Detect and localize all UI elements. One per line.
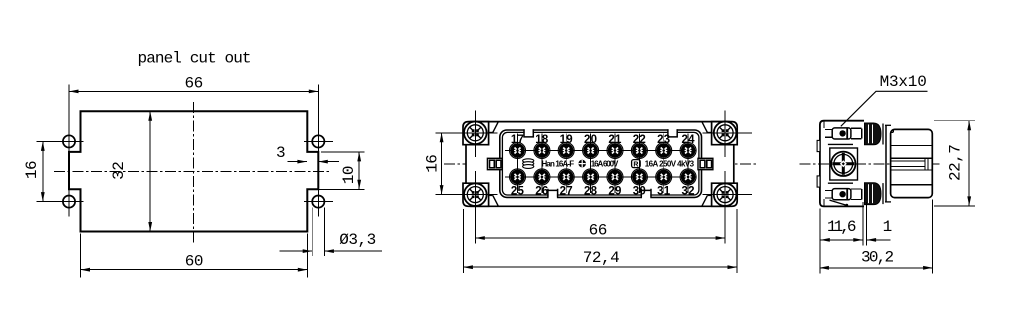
svg-text:25: 25 bbox=[511, 185, 525, 197]
svg-text:Ø3,3: Ø3,3 bbox=[339, 231, 375, 249]
contact 20 bbox=[583, 134, 599, 193]
right body rect bbox=[891, 129, 933, 197]
dimension 32 vertical bbox=[149, 111, 151, 231]
contact 17 bbox=[510, 134, 526, 193]
dimension 60 bottom bbox=[80, 234, 82, 278]
coding notch bottom B bbox=[642, 193, 650, 199]
svg-text:19: 19 bbox=[560, 134, 573, 146]
flange outline bbox=[820, 121, 864, 207]
dimension diameter 3,3 bbox=[311, 208, 313, 257]
corner screw blocks bbox=[463, 122, 489, 145]
screw top-left bbox=[464, 122, 487, 145]
svg-text:16: 16 bbox=[424, 155, 442, 173]
svg-text:30: 30 bbox=[633, 185, 646, 197]
contact 25 bbox=[510, 134, 526, 193]
contact 30 bbox=[631, 134, 647, 193]
bottom lug dark bbox=[865, 183, 882, 205]
cage clamp symbol bbox=[523, 159, 534, 163]
svg-text:60: 60 bbox=[185, 252, 203, 270]
contact 32 bbox=[680, 134, 696, 193]
svg-text:32: 32 bbox=[681, 185, 694, 197]
svg-text:24: 24 bbox=[681, 134, 695, 146]
corner chamfer lines bbox=[493, 122, 499, 133]
dimension 16 left bbox=[441, 133, 443, 195]
horizontal centerline bbox=[54, 170, 331, 172]
horizontal centerline bbox=[444, 163, 757, 165]
center fixing screw housing bbox=[828, 143, 853, 145]
svg-text:66: 66 bbox=[184, 75, 202, 93]
hole vertical crosshair / extension lines bbox=[68, 85, 70, 152]
contact row centerlines bbox=[505, 150, 696, 152]
screw bottom-right bbox=[714, 183, 737, 206]
dimension 66 bbox=[475, 237, 725, 239]
panel cut out view bbox=[23, 49, 382, 277]
svg-text:29: 29 bbox=[608, 185, 621, 197]
contact 26 bbox=[534, 134, 550, 193]
top lug dark bbox=[865, 123, 882, 145]
contact 19 bbox=[558, 134, 574, 193]
svg-text:Han 16A-F: Han 16A-F bbox=[542, 159, 575, 168]
center fixing screw bbox=[831, 152, 855, 176]
hole bottom-right bbox=[312, 196, 324, 208]
flange left edge bumps bbox=[817, 140, 820, 151]
top M3 screw bbox=[832, 128, 851, 139]
hole bottom-left bbox=[63, 196, 75, 208]
svg-text:27: 27 bbox=[560, 185, 573, 197]
svg-text:16: 16 bbox=[23, 161, 41, 179]
svg-text:72,4: 72,4 bbox=[583, 249, 619, 267]
svg-text:M3x10: M3x10 bbox=[880, 73, 927, 91]
dimension 30,2 bbox=[932, 200, 934, 274]
hole top-left bbox=[63, 135, 75, 147]
contact 28 bbox=[583, 134, 599, 193]
svg-text:30,2: 30,2 bbox=[861, 248, 894, 266]
svg-text:16A 250V 4kV3: 16A 250V 4kV3 bbox=[645, 159, 695, 168]
connector side view bbox=[800, 73, 976, 273]
hole top-right bbox=[312, 135, 324, 147]
svg-text:3: 3 bbox=[276, 144, 285, 162]
svg-text:66: 66 bbox=[589, 221, 607, 239]
dimension 16 left bbox=[42, 141, 44, 201]
dimension 72,4 bbox=[462, 209, 464, 273]
svg-text:11,6: 11,6 bbox=[827, 218, 856, 236]
svg-text:R: R bbox=[633, 161, 638, 168]
horizontal centerline bbox=[800, 163, 940, 165]
svg-text:28: 28 bbox=[584, 185, 598, 197]
svg-text:17: 17 bbox=[511, 134, 524, 146]
coding notch bottom A bbox=[549, 193, 557, 199]
svg-text:16A 600V: 16A 600V bbox=[591, 159, 619, 168]
contact 18 bbox=[534, 134, 550, 193]
contact 22 bbox=[631, 134, 647, 193]
flange inner lines bbox=[823, 122, 825, 128]
contact 31 bbox=[656, 134, 672, 193]
svg-text:22: 22 bbox=[633, 134, 646, 146]
dimension 10 right bbox=[358, 152, 360, 189]
svg-text:panel cut out: panel cut out bbox=[138, 49, 251, 67]
vertical centerline bbox=[193, 102, 195, 243]
dimension 3 (recess depth) bbox=[287, 161, 307, 163]
screw top-right bbox=[714, 122, 737, 145]
contact 21 bbox=[607, 134, 623, 193]
svg-text:22,7: 22,7 bbox=[947, 145, 965, 181]
svg-text:20: 20 bbox=[584, 134, 597, 146]
cutout outline bbox=[69, 111, 318, 231]
bottom M3 screw bbox=[832, 189, 851, 200]
svg-text:1: 1 bbox=[883, 218, 892, 236]
insert outline double bbox=[500, 130, 702, 197]
side tab left bbox=[487, 158, 502, 169]
dimension 11,6 and 1 bbox=[819, 209, 821, 274]
screw crosshair lines bbox=[474, 111, 476, 157]
svg-text:26: 26 bbox=[535, 185, 548, 197]
coding notch top A bbox=[525, 128, 533, 134]
flange right edge bbox=[885, 125, 887, 202]
body outline bbox=[466, 122, 734, 207]
svg-text:31: 31 bbox=[657, 185, 671, 197]
contact 27 bbox=[558, 134, 574, 193]
coding notch top B bbox=[669, 128, 677, 134]
side tab right bbox=[698, 158, 713, 169]
contact 23 bbox=[656, 134, 672, 193]
contact 24 bbox=[680, 134, 696, 193]
connector insert front view bbox=[424, 111, 758, 273]
svg-text:21: 21 bbox=[608, 134, 622, 146]
svg-text:32: 32 bbox=[110, 162, 128, 180]
svg-text:18: 18 bbox=[535, 134, 549, 146]
contact 29 bbox=[607, 134, 623, 193]
svg-text:23: 23 bbox=[657, 134, 670, 146]
dimension 66 top bbox=[69, 90, 318, 92]
screw bottom-left bbox=[464, 183, 487, 206]
svg-text:10: 10 bbox=[340, 166, 358, 184]
dimension 22,7 bbox=[934, 120, 975, 122]
